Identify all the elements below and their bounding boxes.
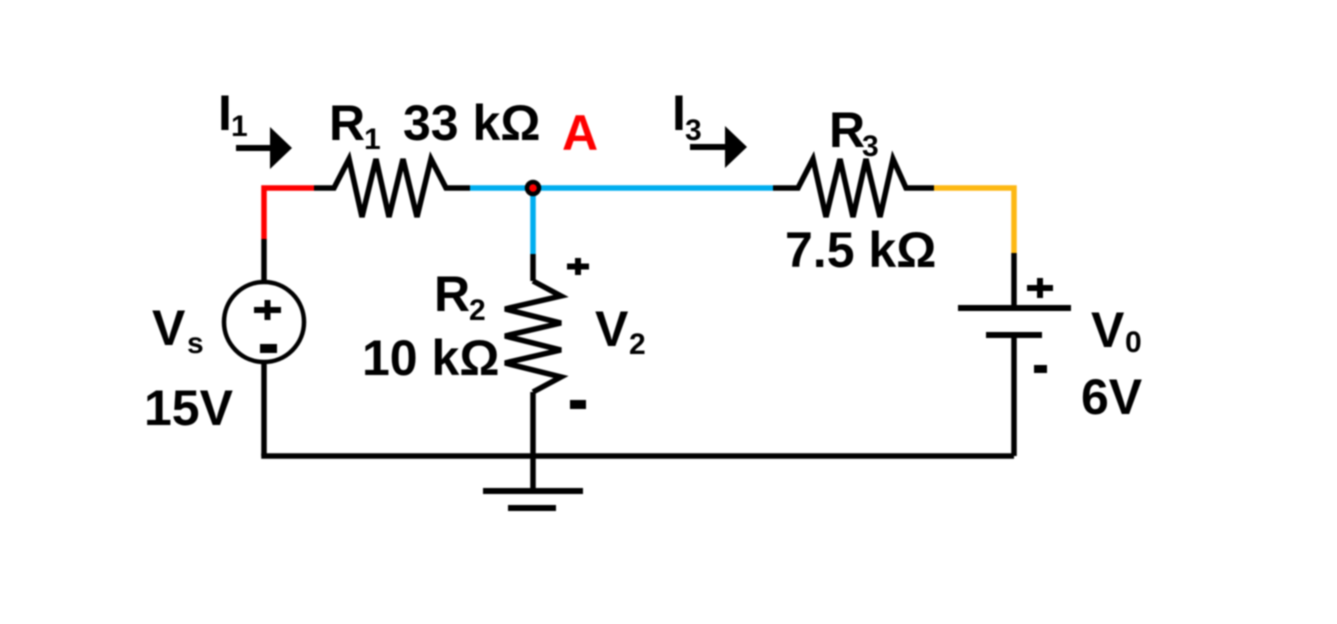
svg-text:V: V	[152, 300, 186, 356]
resistor R2	[505, 281, 561, 392]
current arrow I3	[690, 126, 747, 168]
voltage source Vs circle	[224, 282, 304, 362]
svg-text:6V: 6V	[1081, 369, 1143, 425]
ground	[483, 456, 583, 508]
current arrow I1	[236, 127, 292, 169]
svg-text:s: s	[187, 327, 204, 360]
battery V0 top plate	[958, 305, 1071, 311]
svg-text:I: I	[672, 85, 686, 141]
Vs minus sign	[260, 344, 277, 353]
svg-text:3: 3	[685, 114, 702, 147]
svg-text:1: 1	[364, 123, 381, 156]
svg-text:V: V	[1091, 302, 1125, 358]
svg-text:3: 3	[862, 130, 879, 163]
svg-text:1: 1	[231, 110, 248, 143]
wire bottom rail	[264, 454, 1014, 457]
battery V0 bottom plate	[986, 332, 1042, 338]
wire black R2 top lead	[530, 254, 536, 281]
wire black V0 top lead	[1011, 253, 1017, 308]
svg-text:I: I	[218, 85, 232, 141]
svg-text:V: V	[595, 301, 629, 357]
resistor R3	[773, 159, 934, 217]
svg-text:R: R	[434, 266, 470, 322]
svg-text:A: A	[562, 105, 598, 161]
svg-text:R: R	[829, 102, 865, 158]
wire red segment top-left (Vs to R1)	[264, 188, 314, 239]
R2 plus sign	[567, 258, 589, 275]
wire blue segment (R1 to R3 through node A)	[470, 185, 773, 191]
svg-text:0: 0	[1125, 326, 1142, 359]
battery plus sign	[1027, 278, 1053, 298]
wire orange segment (R3 to V0)	[934, 188, 1014, 253]
svg-text:7.5 kΩ: 7.5 kΩ	[785, 222, 936, 278]
wire black Vs top lead	[261, 239, 267, 283]
svg-text:2: 2	[629, 328, 646, 361]
resistor R1	[314, 159, 470, 217]
wire black Vs bottom lead	[261, 362, 267, 456]
battery minus sign	[1034, 365, 1047, 373]
svg-text:10 kΩ: 10 kΩ	[362, 330, 499, 386]
svg-text:33 kΩ: 33 kΩ	[403, 95, 540, 151]
node A junction dot	[527, 182, 539, 194]
wire black R2 bottom lead	[530, 392, 536, 456]
svg-text:2: 2	[469, 294, 486, 327]
wire blue node-A drop to R2	[530, 188, 536, 254]
svg-text:15V: 15V	[144, 380, 234, 436]
Vs plus sign	[254, 300, 281, 320]
R2 minus sign	[570, 400, 586, 409]
svg-text:R: R	[329, 95, 365, 151]
wire black V0 bottom lead	[1011, 335, 1017, 456]
